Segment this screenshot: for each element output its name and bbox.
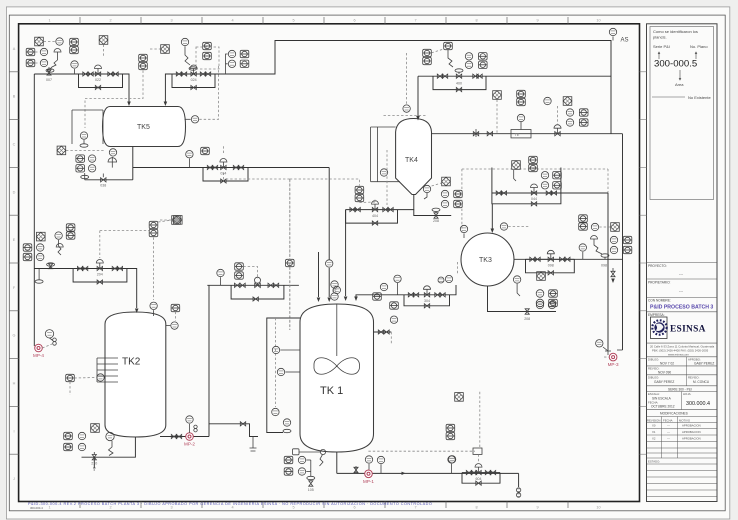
- pipe: TK4 top feed line P5: [418, 75, 611, 77]
- arrow into TK3: [491, 229, 495, 234]
- svg-text:C: C: [13, 143, 16, 147]
- instrument on P1: [74, 69, 76, 74]
- title row dibujo: [647, 356, 718, 358]
- svg-text:MOTIVO: MOTIVO: [679, 419, 691, 423]
- instrument above TK4: [403, 105, 410, 112]
- signal from DCS down: [85, 71, 143, 129]
- pipe: P1 to TK5 drop: [123, 74, 130, 102]
- valve pair left: [350, 208, 355, 212]
- svg-text:NOV 7 02: NOV 7 02: [660, 362, 674, 366]
- DCS pair P2: [553, 172, 562, 179]
- instrument circle TK2 feed: [55, 232, 62, 239]
- tank TK4 cone-bottom vessel: [396, 119, 432, 195]
- seal TK1 drain: [307, 476, 315, 479]
- valve pair right: [560, 257, 565, 261]
- valve pair left: [530, 257, 535, 261]
- pipe: bypass loop: [79, 74, 123, 88]
- DCS pair above TE: [517, 90, 526, 97]
- bottom margin ticks: [48, 502, 600, 510]
- signal vertical bottom: [479, 392, 481, 448]
- mini DCS at TK1 drain: [293, 449, 300, 455]
- signal to shell instrument: [74, 377, 96, 380]
- TK1 impeller: [314, 358, 360, 375]
- svg-text:007: 007: [46, 78, 52, 82]
- signal to interlock: [158, 220, 173, 222]
- signal pump valve: [42, 344, 52, 348]
- pipe: MP-3 suction: [617, 349, 623, 351]
- actuator squiggle drain: [320, 455, 324, 466]
- title row escala: [647, 391, 718, 393]
- TK5 standpipe: [72, 110, 103, 144]
- valve at TK1 outlet: [354, 467, 358, 472]
- seal TK2 feed: [47, 263, 55, 266]
- signal bottom middle: [368, 450, 475, 452]
- pump MP-1: [363, 470, 374, 484]
- DCS pair: [579, 109, 588, 116]
- signal from TI: [508, 226, 530, 228]
- level transmitter LT: [150, 302, 157, 309]
- instrument with actuator: [181, 38, 188, 45]
- svg-text:GABY PEREZ: GABY PEREZ: [654, 380, 674, 384]
- pipe: station line: [203, 167, 248, 169]
- title section nombre: [647, 297, 718, 299]
- drain valve: [101, 178, 106, 182]
- pipe: TK3 feed riser: [491, 204, 493, 229]
- DCS above P3: [201, 147, 210, 154]
- pipe: instrument tap: [226, 54, 228, 74]
- pipe: transfer riser loop: [209, 424, 258, 437]
- signal down to TK4: [406, 53, 408, 104]
- DCS pair cone: [454, 190, 463, 197]
- title row serie: [647, 385, 718, 387]
- instrument circle on drain: [536, 301, 543, 308]
- valve with stem on P1: [48, 67, 50, 74]
- svg-text:AS: AS: [621, 38, 629, 44]
- svg-text:4: 4: [231, 506, 233, 510]
- interlock square outlet: [611, 223, 620, 232]
- pipe: second feed drop to TK5: [165, 74, 172, 102]
- instrument TX near TK1 riser: [331, 293, 338, 300]
- pipe: drain stub down: [93, 457, 95, 468]
- pipe: riser to TK4: [417, 76, 419, 116]
- pump MP-2: [184, 433, 195, 447]
- instrument on P7: [390, 302, 399, 309]
- pipe: riser to TK1 nozzle c: [318, 252, 320, 297]
- control valve squiggle outlet: [594, 239, 602, 254]
- svg-text:8: 8: [475, 506, 477, 510]
- signal MP-3: [604, 356, 609, 358]
- signal dashed to TK4 station DCS: [290, 179, 360, 186]
- svg-text:TK3: TK3: [479, 257, 492, 264]
- bypass valve: [476, 481, 481, 485]
- signal from DCS to CV: [99, 231, 101, 258]
- svg-text:---: ---: [667, 424, 670, 428]
- gauge above MP-4: [45, 330, 53, 338]
- TK4 outlet branch valve: [414, 210, 451, 216]
- instrument above P3 station: [188, 159, 190, 168]
- pipe: TK5 drain drop: [132, 147, 134, 180]
- pipe: drop to drain: [518, 473, 520, 487]
- svg-text:A: A: [13, 47, 16, 51]
- signal down to LT: [153, 238, 155, 301]
- svg-text:TK 1: TK 1: [320, 385, 343, 397]
- svg-text:E: E: [13, 238, 16, 242]
- arrow into TK2: [135, 309, 139, 314]
- pump MP-4: [33, 344, 44, 358]
- signal box bottom: [473, 448, 482, 454]
- instrument circle cluster: [228, 50, 235, 57]
- svg-text:J: J: [13, 477, 15, 481]
- svg-text:604: 604: [476, 477, 482, 481]
- note arrows: [658, 52, 697, 59]
- level circle TK2 drain: [106, 432, 114, 440]
- level instrument: [109, 149, 116, 156]
- signal TI to DCS: [199, 66, 218, 119]
- valve pair right: [108, 72, 113, 76]
- signal continue: [289, 268, 291, 331]
- signal drop LT TK1: [274, 318, 276, 407]
- instrument TI at TK2 shell: [171, 322, 178, 329]
- instrument PI right: [544, 97, 551, 104]
- instrument pair TK1 drain: [298, 456, 305, 463]
- TK1 agitator shaft: [336, 304, 338, 356]
- control valve drain: [111, 157, 113, 168]
- svg-text:Como se identificaron los: Como se identificaron los: [653, 29, 698, 34]
- signal to PI: [44, 41, 56, 43]
- signal long left vertical: [289, 179, 291, 330]
- interlock square P2: [512, 161, 521, 170]
- level instrument TK1: [283, 419, 290, 426]
- signal left from square: [160, 219, 171, 221]
- seal on outlet line: [601, 254, 609, 257]
- control valve: [95, 72, 100, 76]
- ESINSA logo gear: [651, 317, 668, 339]
- signal to LI: [66, 149, 105, 151]
- vent leg: [38, 269, 40, 281]
- interlock square top-left: [35, 37, 44, 46]
- svg-text:6: 6: [353, 19, 355, 23]
- pipe: station line: [73, 268, 127, 270]
- svg-text:MODIFICACIONES: MODIFICACIONES: [660, 412, 688, 416]
- tank TK2 vertical vessel: [105, 312, 166, 437]
- svg-text:X1: X1: [652, 430, 656, 434]
- gauge above MP-2: [189, 424, 191, 433]
- svg-text:TK4: TK4: [405, 157, 418, 164]
- valve pair left: [77, 266, 82, 270]
- svg-text:1: 1: [48, 506, 50, 510]
- DCS stack TK5 right: [203, 42, 212, 49]
- pipe: TK2 transfer to pump: [160, 436, 209, 438]
- pipe: station line: [172, 73, 215, 75]
- valve pair right: [485, 471, 490, 475]
- pipe: TK1 bottom outlet: [336, 452, 338, 473]
- DCS stack 2: [139, 54, 148, 61]
- instrument pair cone: [441, 190, 448, 197]
- svg-text:ESCALA:: ESCALA:: [648, 392, 660, 396]
- check valve on loop: [240, 422, 245, 426]
- svg-text:1: 1: [48, 19, 50, 23]
- pipe: station line: [526, 258, 575, 260]
- valve pair left: [408, 293, 413, 297]
- pipe: left supply header vertical: [33, 74, 35, 346]
- DCS stack TK2 feed: [66, 224, 75, 231]
- signal dash DCS to valve: [432, 49, 444, 53]
- arrow into TK1 nozzle b: [354, 297, 358, 302]
- valve pair left: [207, 165, 212, 169]
- svg-text:M. CONCU: M. CONCU: [693, 380, 710, 384]
- signal TK3 drain: [517, 284, 520, 296]
- pipe: bypass loop: [172, 74, 215, 88]
- instrument TK1 left shell b: [277, 368, 284, 375]
- instrument circle below: [390, 316, 397, 323]
- DCS pair TK3 drain: [549, 290, 558, 297]
- svg-text:APROBACION: APROBACION: [682, 424, 701, 428]
- svg-text:2: 2: [109, 19, 111, 23]
- pipe: P7 riser to TK3: [450, 285, 457, 295]
- title row reviso: [647, 365, 718, 367]
- modificaciones table: [661, 417, 663, 459]
- pipe: TK1 level bridle: [267, 318, 300, 433]
- line to drain valve circle: [299, 451, 321, 453]
- arrow into TK1 nozzle c: [317, 298, 321, 303]
- signal to interlock: [599, 226, 610, 228]
- svg-text:MP-3: MP-3: [608, 362, 619, 367]
- pipe: station line: [79, 73, 123, 75]
- svg-text:SERIE 300 - P&I: SERIE 300 - P&I: [668, 388, 692, 392]
- control valve on P4 right: [555, 132, 560, 136]
- svg-text:OCTUBRE 2012: OCTUBRE 2012: [651, 405, 675, 409]
- gauge above MP-3: [596, 340, 603, 347]
- area arrow: [679, 70, 681, 80]
- gauge PI above MP-1: [368, 464, 370, 470]
- svg-text:3: 3: [170, 19, 172, 23]
- svg-text:NOV 090: NOV 090: [658, 371, 671, 375]
- bypass valve: [221, 179, 226, 183]
- instrument pair P2: [541, 172, 548, 179]
- pipe: TK3 to TK1 line P7: [356, 295, 404, 299]
- control valve: [548, 257, 553, 261]
- title address: [647, 342, 718, 344]
- signal drop: [496, 100, 498, 134]
- valve pair TK1 right: [378, 330, 383, 334]
- svg-text:X2: X2: [652, 437, 656, 441]
- control valve: [531, 191, 536, 195]
- DCS stack TK2 right: [149, 221, 158, 228]
- svg-text:---: ---: [667, 430, 670, 434]
- svg-text:044: 044: [531, 197, 537, 201]
- interlock square 2: [99, 36, 108, 45]
- interlock square station2: [161, 45, 170, 54]
- pipe: station line extension: [561, 192, 608, 194]
- pipe: bottom header: [337, 472, 519, 474]
- interlock square TK2 drain: [91, 424, 100, 433]
- svg-text:7: 7: [414, 506, 416, 510]
- svg-text:9: 9: [536, 506, 538, 510]
- pipe: TK5 drain run: [85, 179, 133, 181]
- svg-text:6: 6: [353, 506, 355, 510]
- signal TK1 drain: [306, 459, 311, 461]
- svg-text:7: 7: [414, 19, 416, 23]
- svg-text:D: D: [13, 190, 16, 194]
- svg-text:www.esinsa.com: www.esinsa.com: [668, 352, 689, 356]
- svg-text:H: H: [13, 382, 16, 386]
- drawing border: [19, 24, 640, 502]
- pipe: station line: [346, 209, 398, 211]
- instrument PI top-left: [56, 38, 63, 45]
- svg-text:P&ID-300-000-4 REV.2 PROCESO B: P&ID-300-000-4 REV.2 PROCESO BATCH PLANT…: [28, 502, 432, 506]
- pipe: bypass loop: [404, 295, 450, 306]
- svg-text:B: B: [13, 95, 16, 99]
- instrument TI at TK5 right: [185, 118, 191, 120]
- DCS pair right: [623, 236, 632, 243]
- svg-text:208: 208: [524, 317, 530, 321]
- DCS stack transfer: [235, 263, 244, 270]
- signal dashed mid-right: [462, 168, 608, 170]
- svg-text:Area: Area: [675, 82, 684, 87]
- instrument pair left: [40, 48, 47, 55]
- svg-text:304: 304: [424, 299, 430, 303]
- svg-text:REVISION: REVISION: [647, 419, 660, 423]
- signal links: [35, 51, 40, 53]
- instrument circle pair right: [610, 236, 617, 243]
- svg-text:No Existente: No Existente: [688, 95, 711, 100]
- signal to valve: [557, 106, 559, 124]
- svg-text:208: 208: [433, 219, 439, 223]
- svg-text:APROBACION: APROBACION: [682, 430, 701, 434]
- svg-text:HOJA:: HOJA:: [683, 392, 691, 396]
- svg-text:MP-2: MP-2: [184, 442, 195, 447]
- instrument pair TK3 left: [445, 275, 452, 282]
- bypass valve: [372, 221, 377, 225]
- pipe: middle header P3: [133, 167, 329, 169]
- flow arrow on header: [402, 472, 406, 475]
- control valve squiggle TK2: [58, 240, 61, 255]
- level instrument TK4: [380, 169, 387, 176]
- level instrument TK3: [513, 276, 520, 283]
- title section propietario: [647, 278, 718, 280]
- signal stub: [150, 48, 160, 50]
- svg-text:TK2: TK2: [122, 357, 141, 368]
- pipe: station line: [462, 472, 500, 474]
- block valve pair on P5 right: [473, 74, 478, 78]
- DCS stack P2: [529, 156, 538, 163]
- DCS stack bottom: [446, 424, 455, 431]
- signal dashed box: [196, 47, 219, 69]
- signal cone: [432, 183, 442, 186]
- signal gauge valve: [50, 338, 53, 341]
- valve pair left: [496, 191, 501, 195]
- pipe: top-left feed line P1: [34, 73, 78, 75]
- gate valve on P4: [473, 132, 478, 136]
- control valve: [372, 208, 377, 212]
- signal dashed TK4: [384, 114, 427, 116]
- no existente legend: [652, 96, 685, 98]
- svg-text:FECHA: FECHA: [663, 419, 673, 423]
- valve with stem TK2 feed: [49, 264, 53, 269]
- signal dashed drop right: [607, 169, 609, 193]
- pipe: TK1 right nozzle: [374, 331, 392, 333]
- svg-text:105: 105: [308, 488, 314, 492]
- signal down right: [390, 332, 392, 345]
- svg-text:404: 404: [372, 214, 378, 218]
- DCS pair drain: [76, 155, 85, 162]
- valve pair on transfer: [171, 434, 176, 438]
- TK4 nozzle line left: [371, 126, 396, 128]
- interlock square TK2 right: [174, 216, 183, 225]
- arrow into TK4: [416, 116, 420, 121]
- actuator seal above valve: [455, 69, 463, 72]
- pipe: P4 down right side: [622, 134, 624, 350]
- motor M on TK1: [333, 286, 340, 293]
- instrument circle above TK1: [326, 260, 333, 267]
- arrow into TK1 nozzle a: [344, 297, 348, 302]
- svg-text:G: G: [13, 334, 16, 338]
- svg-text:10: 10: [596, 506, 600, 510]
- signal to P6 valve: [374, 198, 376, 202]
- TK4 level box: [371, 127, 378, 182]
- DCS stack P6: [355, 186, 364, 193]
- level transmitter TK1: [272, 408, 279, 415]
- pipe: station line: [492, 192, 561, 194]
- instrument circle outlet: [591, 223, 598, 230]
- gauge PI 2: [380, 464, 382, 473]
- svg-text:300.000.4: 300.000.4: [686, 401, 710, 407]
- pipe: TK3 outlet P8: [514, 258, 623, 260]
- svg-text:---: ---: [667, 437, 670, 441]
- pipe: bypass loop: [462, 473, 500, 484]
- svg-text:5: 5: [292, 19, 294, 23]
- instrument PT near TK1 riser: [331, 281, 338, 288]
- instrument at TK3 top left: [463, 234, 465, 239]
- valve pair right: [383, 208, 388, 212]
- control valve: [476, 471, 481, 475]
- valve pair left: [176, 72, 181, 76]
- arrow into TK1 nozzle d: [327, 298, 331, 303]
- svg-text:038: 038: [100, 184, 106, 188]
- svg-text:8: 8: [475, 19, 477, 23]
- svg-text:TK5: TK5: [137, 124, 150, 131]
- svg-text:APROBACION: APROBACION: [682, 437, 701, 441]
- signal to transfer valve: [243, 267, 257, 280]
- control valve signal: [514, 170, 516, 181]
- pipe: bypass loop: [203, 168, 248, 182]
- small valve right of gauge: [194, 425, 197, 428]
- valve pair transfer left: [235, 283, 240, 287]
- svg-text:Serie P&I: Serie P&I: [653, 44, 670, 49]
- svg-text:I: I: [13, 429, 14, 433]
- DCS stack top-left: [70, 38, 79, 45]
- signal TK3 riser: [461, 169, 463, 233]
- TK2 coil nozzle marks: [97, 357, 118, 359]
- svg-text:024: 024: [191, 78, 197, 82]
- svg-text:plancis.: plancis.: [653, 35, 667, 40]
- instrument PI at station: [397, 283, 399, 295]
- svg-text:GABY PEREZ: GABY PEREZ: [694, 362, 714, 366]
- DCS stack outlet: [579, 215, 588, 222]
- bypass valve: [97, 280, 102, 284]
- signal down to TI: [174, 312, 176, 321]
- DCS single: [444, 42, 453, 49]
- interlock square drain: [57, 146, 66, 155]
- valve pair left: [466, 471, 471, 475]
- drain valve LV: [525, 309, 529, 314]
- title note box: [650, 27, 714, 200]
- pipe: PRV loop riser left: [491, 168, 493, 194]
- instrument pair TK4 right: [465, 53, 472, 60]
- pipe: transfer bypass: [231, 285, 284, 299]
- pump MP-3: [608, 353, 619, 367]
- DCS on signal: [286, 259, 295, 266]
